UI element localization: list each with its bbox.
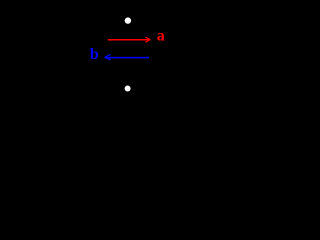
white dot bottom (125, 86, 131, 92)
white dot top (125, 17, 131, 23)
vector arrow b (blue, pointing left) (105, 54, 150, 59)
label a (157, 27, 165, 44)
svg-text:a: a (157, 27, 165, 44)
svg-text:b: b (90, 46, 99, 63)
vector arrow a (red, pointing right) (108, 37, 151, 42)
label b (90, 46, 99, 63)
